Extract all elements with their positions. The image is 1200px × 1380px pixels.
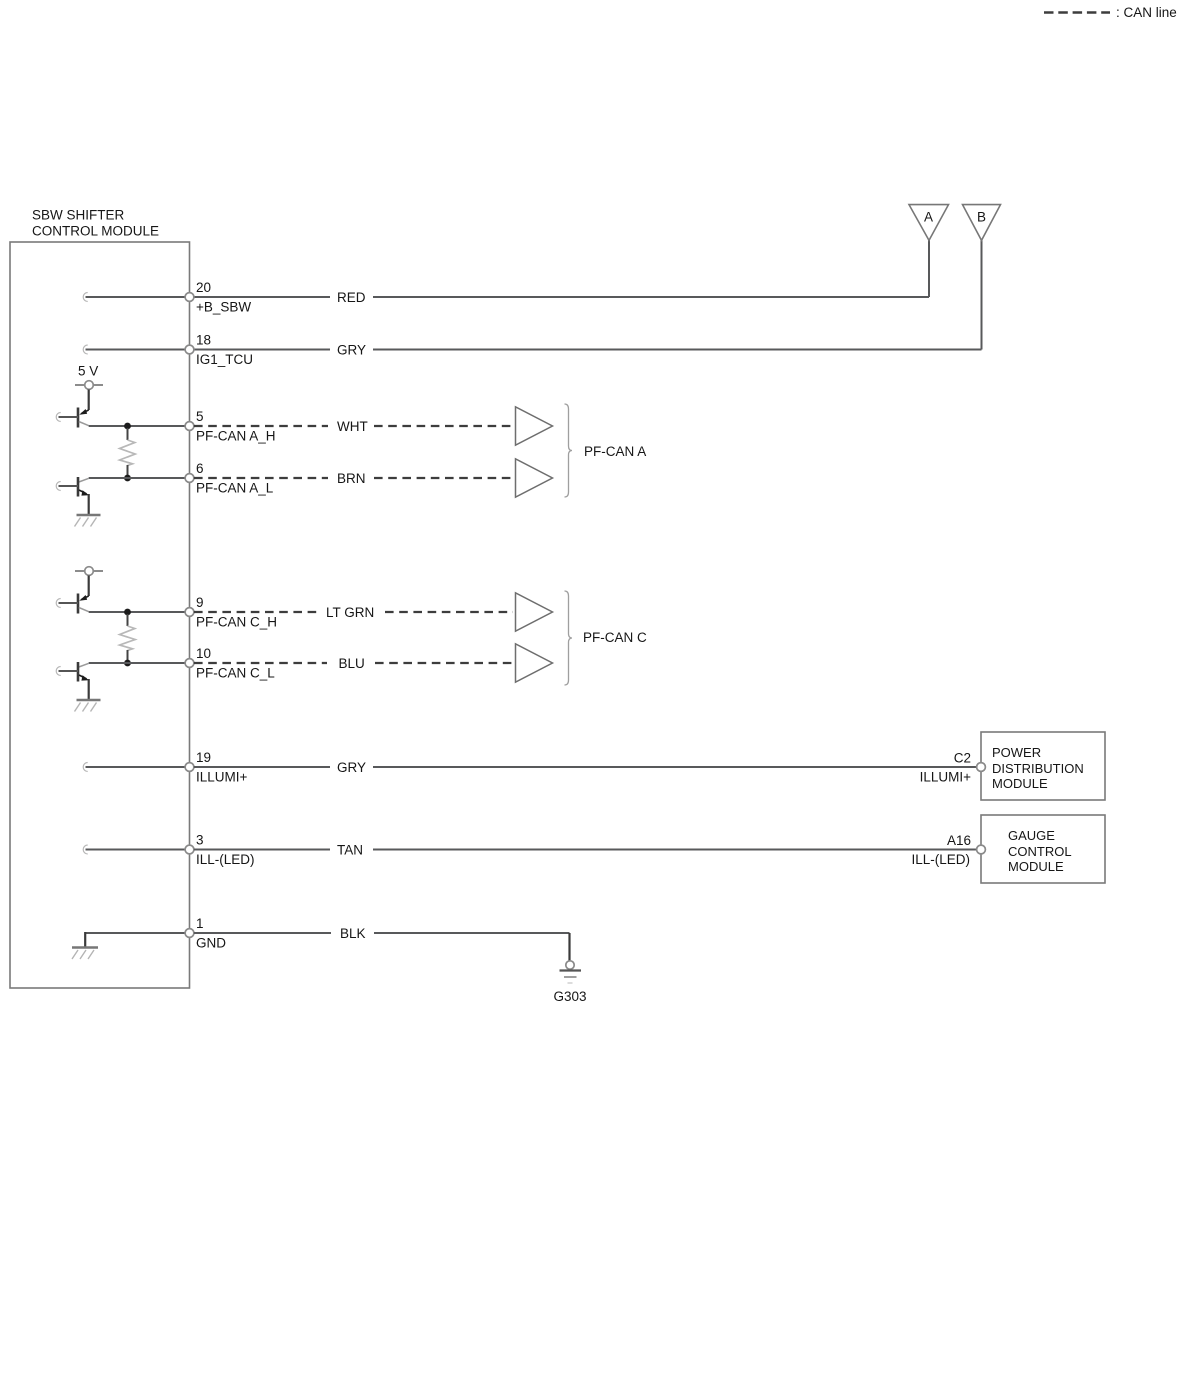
svg-text:SBW SHIFTER: SBW SHIFTER [32, 208, 125, 223]
wire vertical down to G303 [568, 933, 570, 961]
svg-text:MODULE: MODULE [1008, 859, 1064, 874]
svg-text:DISTRIBUTION: DISTRIBUTION [992, 761, 1084, 776]
svg-text:CONTROL MODULE: CONTROL MODULE [32, 224, 159, 239]
svg-text:PF-CAN A_L: PF-CAN A_L [196, 481, 274, 496]
brace PF-CAN A [565, 404, 573, 497]
svg-text:: CAN line: : CAN line [1116, 5, 1177, 20]
transistor Q2 emitter vertical to ground [88, 679, 90, 700]
svg-text:LT GRN: LT GRN [326, 605, 374, 620]
wire GRY segment pin18 to label [194, 349, 330, 351]
transistor Q2 emitter arrow (NPN) [79, 490, 87, 494]
pin 19 terminal [185, 763, 194, 772]
buffer PF-CAN A_L [516, 459, 553, 497]
connector hook pin 3 [83, 845, 88, 854]
svg-text:WHT: WHT [337, 419, 368, 434]
resistor R termination stub top [127, 428, 129, 440]
svg-text:G303: G303 [553, 989, 586, 1004]
5V supply tick [75, 570, 103, 572]
transistor Q2 collector diagonal [79, 478, 89, 482]
connector hook base lead [56, 667, 61, 676]
wire LT GRN dashed label to buffer [385, 611, 513, 613]
svg-text:5 V: 5 V [78, 364, 98, 379]
wire vertical up to connector A [928, 240, 930, 297]
brace PF-CAN C [565, 591, 573, 685]
wire internal lead pin 19 [86, 766, 190, 768]
ground G303 bar 3 [568, 982, 573, 984]
svg-text:BLU: BLU [339, 656, 365, 671]
svg-text:1: 1 [196, 916, 204, 931]
svg-text:ILL-(LED): ILL-(LED) [911, 852, 970, 867]
svg-text:ILLUMI+: ILLUMI+ [196, 770, 248, 785]
ground (chassis) bar [77, 699, 101, 701]
transistor Q2 base bar [77, 662, 80, 682]
transistor Q2 base bar [77, 477, 80, 497]
resistor R termination stub bottom [127, 650, 129, 661]
wire vertical up to connector B [981, 240, 983, 350]
transistor Q emitter vertical from 5V [88, 390, 90, 411]
resistor R zigzag [120, 440, 136, 466]
wire TAN label to GCM [373, 849, 977, 851]
ground hatches internal [72, 950, 78, 959]
ground hatches [75, 703, 81, 712]
svg-text:PF-CAN C_L: PF-CAN C_L [196, 666, 275, 681]
node junction L [124, 475, 131, 482]
buffer PF-CAN A_H [516, 407, 553, 445]
wire RED segment label to connector A [373, 296, 929, 298]
svg-text:PF-CAN C_H: PF-CAN C_H [196, 615, 277, 630]
svg-text:PF-CAN A: PF-CAN A [584, 444, 646, 459]
wire BRN dashed pin6 to label [194, 477, 328, 479]
transistor Q emitter arrow (PNP) [81, 596, 89, 600]
module SBW SHIFTER CONTROL MODULE box [10, 242, 190, 988]
svg-text:20: 20 [196, 280, 211, 295]
module GAUGE CONTROL MODULE box [981, 815, 1105, 883]
wire internal lead pin 1 [85, 932, 189, 934]
connector B triangle [963, 205, 1001, 241]
wire GRY pin19 to label [194, 766, 330, 768]
wire GRY segment label to connector B [373, 349, 982, 351]
pin 3 terminal [185, 845, 194, 854]
connector hook base lead [56, 482, 61, 491]
5V supply circle [85, 381, 94, 390]
svg-text:ILL-(LED): ILL-(LED) [196, 852, 255, 867]
wire RED segment pin20 to label [194, 296, 330, 298]
transistor Q base lead [59, 602, 79, 604]
wire: internal lead pin 18 [86, 349, 190, 351]
svg-text:18: 18 [196, 333, 211, 348]
ground (chassis) bar [77, 514, 101, 516]
svg-text:19: 19 [196, 750, 211, 765]
svg-text:ILLUMI+: ILLUMI+ [920, 770, 972, 785]
svg-text:BLK: BLK [340, 926, 366, 941]
svg-text:BRN: BRN [337, 471, 366, 486]
svg-text:TAN: TAN [337, 843, 363, 858]
transistor Q2 base lead [59, 670, 79, 672]
wire internal L pin6 [89, 477, 190, 479]
wire TAN pin3 to label [194, 849, 330, 851]
wire WHT dashed label to buffer [374, 425, 513, 427]
wire internal L pin10 [89, 662, 190, 664]
node junction H [124, 423, 131, 430]
wire internal H pin9 [89, 611, 190, 613]
transistor Q collector diagonal [79, 422, 89, 426]
wire BLK label to G303 [374, 932, 570, 934]
svg-text:+B_SBW: +B_SBW [196, 300, 251, 315]
svg-text:B: B [977, 210, 986, 225]
ground (internal chassis) bar [72, 946, 98, 948]
wire BLU dashed pin10 to label [194, 662, 327, 664]
connector hook pin 19 [83, 763, 88, 772]
resistor R termination stub top [127, 614, 129, 626]
svg-text:GND: GND [196, 936, 226, 951]
connector hook base lead [56, 413, 61, 422]
pin 9 terminal [185, 608, 194, 617]
node junction L [124, 660, 131, 667]
ground G303 bar 2 [564, 976, 577, 978]
svg-text:GRY: GRY [337, 760, 366, 775]
svg-text:PF-CAN A_H: PF-CAN A_H [196, 429, 276, 444]
wire BRN dashed label to buffer [374, 477, 513, 479]
wire LT GRN dashed pin9 to label [194, 611, 317, 613]
pin A16 terminal GCM [977, 845, 986, 854]
svg-text:GAUGE: GAUGE [1008, 828, 1055, 843]
svg-text:10: 10 [196, 646, 211, 661]
svg-text:GRY: GRY [337, 343, 366, 358]
wire BLK pin1 to label [194, 932, 331, 934]
svg-text:MODULE: MODULE [992, 776, 1048, 791]
pin C2 terminal PDM [977, 763, 986, 772]
legend: CAN line dashed sample [1044, 11, 1110, 13]
wire internal down to chassis ground [84, 932, 86, 948]
buffer PF-CAN C_L [516, 644, 553, 682]
wire internal H pin5 [89, 425, 190, 427]
connector hook pin 20 internal [83, 293, 88, 302]
svg-text:6: 6 [196, 461, 204, 476]
resistor R zigzag [120, 626, 136, 651]
transistor Q emitter arrow (PNP) [81, 410, 89, 414]
node junction H [124, 609, 131, 616]
transistor Q base bar [77, 594, 80, 614]
transistor Q base lead [59, 416, 79, 418]
wire: internal lead pin 20 [86, 296, 190, 298]
pin 6 terminal [185, 474, 194, 483]
ground G303 earth symbol circle [566, 961, 574, 969]
5V supply circle [85, 567, 94, 576]
transistor Q collector diagonal [79, 608, 89, 612]
pin 20 terminal [185, 293, 194, 302]
svg-text:C2: C2 [954, 751, 971, 766]
ground G303 bar 1 [560, 969, 582, 971]
svg-text:9: 9 [196, 595, 204, 610]
connector A triangle [909, 205, 949, 241]
wire internal lead pin 3 [86, 849, 190, 851]
svg-text:A: A [924, 210, 933, 225]
svg-text:5: 5 [196, 409, 204, 424]
connector hook pin 18 internal [83, 345, 88, 354]
pin 18 terminal [185, 345, 194, 354]
transistor Q2 emitter vertical to ground [88, 494, 90, 515]
pin 5 terminal [185, 422, 194, 431]
svg-text:A16: A16 [947, 833, 971, 848]
connector hook base lead [56, 599, 61, 608]
wire BLU dashed label to buffer [375, 662, 513, 664]
5V supply tick [75, 384, 103, 386]
transistor Q emitter vertical from 5V [88, 576, 90, 597]
pin 1 terminal [185, 929, 194, 938]
resistor R termination stub bottom [127, 465, 129, 476]
wire GRY label to PDM [373, 766, 977, 768]
svg-text:CONTROL: CONTROL [1008, 844, 1072, 859]
svg-text:3: 3 [196, 833, 204, 848]
pin 10 terminal [185, 659, 194, 668]
svg-text:RED: RED [337, 290, 366, 305]
transistor Q2 base lead [59, 485, 79, 487]
svg-text:IG1_TCU: IG1_TCU [196, 352, 253, 367]
buffer PF-CAN C_H [516, 593, 553, 631]
svg-text:POWER: POWER [992, 745, 1041, 760]
transistor Q2 collector diagonal [79, 663, 89, 667]
svg-text:PF-CAN C: PF-CAN C [583, 630, 647, 645]
ground hatches [75, 518, 81, 527]
module POWER DISTRIBUTION MODULE box [981, 732, 1105, 800]
transistor Q2 emitter arrow (NPN) [79, 675, 87, 679]
transistor Q base bar [77, 408, 80, 428]
wire WHT dashed pin5 to label [194, 425, 328, 427]
